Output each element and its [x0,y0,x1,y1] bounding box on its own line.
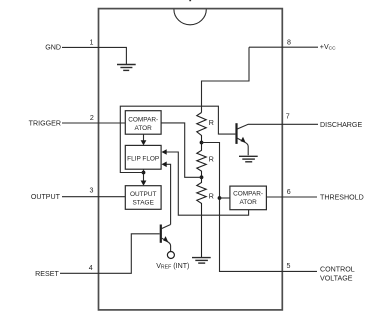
wire: node to U4 left input [220,197,230,199]
svg-text:VOLTAGE: VOLTAGE [320,274,353,282]
svg-text:6: 6 [287,188,291,196]
svg-text:TRIGGER: TRIGGER [29,120,61,128]
svg-text:COMPAR-: COMPAR- [128,117,158,124]
svg-text:3: 3 [90,187,94,195]
IC package outline [99,9,283,310]
svg-text:R: R [209,119,214,127]
svg-text:FLIP FLOP: FLIP FLOP [127,156,159,163]
transistor Q2 (reset, NPN) [160,225,162,243]
node: R2/R3 junction [200,175,204,179]
pin 1 wire (GND) [62,47,126,64]
wire: flip flop output to discharge transistor base [120,106,235,172]
svg-text:DISCHARGE: DISCHARGE [320,121,362,129]
wire: flip flop output to output stage (arrow) [143,169,145,181]
pin-1 index notch [174,9,206,25]
svg-text:2: 2 [90,114,94,122]
svg-text:OUTPUT: OUTPUT [130,191,157,198]
resistor R2 [197,143,206,178]
ground symbol at pin 1 [117,65,136,71]
svg-text:4: 4 [89,264,93,272]
wire: Vcc feed to resistor chain top [202,47,250,112]
resistor R3 [197,177,206,257]
pin 7 wire (DISCHARGE) with Q1 collector [237,124,318,129]
pin 3 wire (OUTPUT) [62,196,125,198]
svg-text:R: R [209,156,214,164]
svg-text:ATOR: ATOR [135,125,153,132]
op-amp U4 threshold comparator box [230,186,267,210]
svg-text:5: 5 [287,262,291,270]
pin 8 wire (+VCC) [249,46,318,48]
pin 4 wire (RESET) to Q2 base [60,234,160,273]
svg-text:R: R [209,193,214,201]
wire: U4 output to flip flop upper-right input (arrow) [167,152,249,215]
pin 6 wire (THRESHOLD) [266,196,317,198]
svg-text:STAGE: STAGE [133,200,155,207]
resistor R1 [197,113,206,143]
node: R1/R2 junction [200,141,204,145]
op-amp U1 trigger comparator box [125,111,161,135]
flip flop U2 box [125,145,161,169]
wire: 2/3 Vcc net to threshold comparator and pin 5 [202,143,318,272]
svg-text:OUTPUT: OUTPUT [31,193,61,201]
transistor Q2 reset/Vref: collector wire to flip flop lower-right input (arrow) [167,164,171,224]
transistor Q1 (discharge, NPN) [235,123,237,144]
wire: 1/3 Vcc reference to U1 right input [161,123,201,177]
svg-text:GND: GND [45,44,61,52]
wire: U1 output to flip flop (arrow) [143,134,145,140]
Vref terminal circle [167,252,174,259]
svg-text:THRESHOLD: THRESHOLD [320,194,364,202]
pin 2 wire (TRIGGER) [62,122,125,124]
output stage U3 box [125,186,161,210]
svg-text:8: 8 [287,38,291,46]
svg-text:COMPAR-: COMPAR- [233,191,263,198]
svg-text:ATOR: ATOR [239,199,257,206]
ground symbol below Q1 [239,156,258,162]
node: flip flop output junction [142,171,146,175]
node: 2/3 Vcc tap to comparator [218,196,222,200]
svg-text:7: 7 [286,113,290,121]
svg-text:1: 1 [90,38,94,46]
ground symbol below R3 [192,258,211,264]
svg-text:CONTROL: CONTROL [320,265,355,273]
svg-text:RESET: RESET [35,270,59,278]
